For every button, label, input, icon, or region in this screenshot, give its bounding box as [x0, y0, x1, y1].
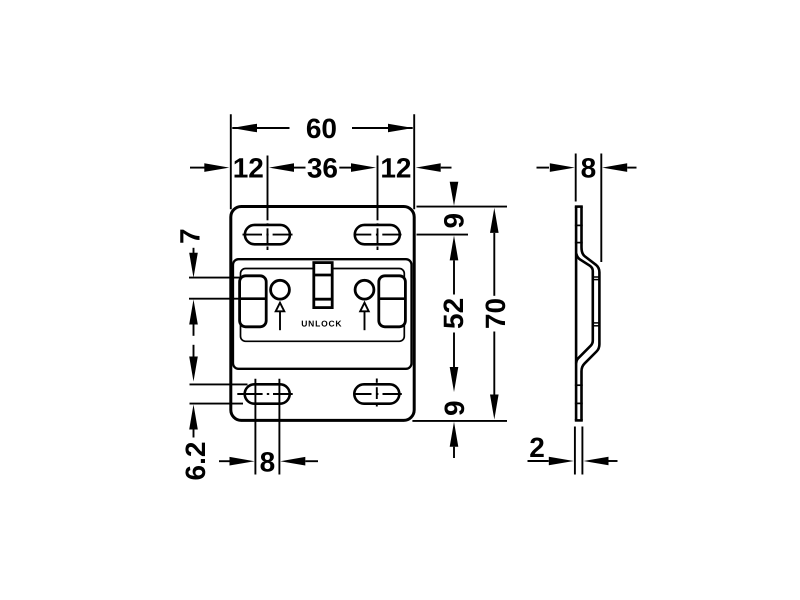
side profile: top end cap	[575, 205, 583, 208]
dimension 8 (side top)	[537, 153, 637, 184]
center slider button	[314, 263, 332, 308]
svg-text:12: 12	[380, 153, 411, 184]
dimension 9 (top right)	[438, 182, 469, 229]
front view: recessed inner rectangle	[241, 269, 405, 342]
unlabeled chain arrows (left)	[189, 345, 198, 382]
left pin circle	[271, 280, 290, 299]
center line: bottom-right slot horizontal	[355, 393, 402, 395]
bottom-right slot	[354, 384, 399, 403]
extension line: plate left edge	[230, 114, 232, 209]
center line: bottom-right slot vertical	[376, 379, 378, 407]
bottom-left slot	[245, 384, 290, 403]
top-right slot	[355, 225, 400, 244]
svg-text:52: 52	[438, 298, 469, 329]
extension lines for bottom 8	[254, 379, 256, 475]
dimension 9 (bottom right)	[439, 400, 470, 458]
svg-text:7: 7	[175, 228, 206, 244]
svg-text:70: 70	[480, 298, 511, 329]
extension line: plate bottom right	[412, 420, 507, 422]
svg-text:60: 60	[306, 113, 337, 144]
center line: top-right slot horizontal	[354, 234, 402, 236]
side profile: inner bump line	[576, 254, 593, 364]
svg-text:2: 2	[529, 432, 545, 463]
side profile: back face line	[575, 207, 578, 421]
extension line A (lock top, left)	[189, 277, 269, 279]
left latch block	[240, 276, 267, 327]
dimension 60	[232, 113, 413, 144]
right latch divider	[379, 297, 406, 300]
svg-text:6.2: 6.2	[180, 442, 211, 481]
dimension 70 (right)	[480, 208, 511, 420]
side profile: bottom end cap	[575, 419, 583, 422]
dimension 36	[269, 153, 376, 184]
extension lines 6.2	[190, 383, 248, 385]
dimension 8 (bottom)	[219, 446, 318, 477]
dimension 2 (side bottom)	[528, 432, 618, 465]
svg-text:8: 8	[581, 153, 597, 184]
left latch divider	[240, 297, 267, 300]
center line: top-left slot horizontal	[243, 234, 293, 236]
svg-text:9: 9	[439, 400, 470, 416]
svg-text:12: 12	[233, 153, 264, 184]
svg-text:9: 9	[438, 213, 469, 229]
center line: bottom-left slot horizontal	[237, 393, 292, 395]
side profile tick marks (bump)	[592, 277, 601, 326]
extension lines for 2	[574, 427, 576, 475]
right unlock arrow	[360, 303, 369, 312]
extension line B (hole center, left)	[189, 298, 275, 300]
extension line: plate right edge	[413, 114, 415, 209]
left unlock arrow	[276, 303, 285, 312]
right latch block	[379, 276, 406, 327]
svg-text:8: 8	[260, 446, 276, 477]
dimension 52 (right)	[438, 235, 469, 392]
right pin circle	[355, 280, 374, 299]
dimension 12 (left)	[190, 153, 264, 184]
dimension 12 (right)	[380, 153, 451, 184]
center line: top-right slot vertical	[377, 156, 379, 251]
extension line: top slot center right	[417, 234, 469, 236]
side profile slot tick marks (back)	[575, 225, 583, 403]
extension line: plate top right	[417, 206, 508, 208]
top-left slot	[245, 225, 290, 244]
front view: plate outline	[231, 207, 414, 421]
extension lines side 8	[575, 154, 577, 202]
svg-text:UNLOCK: UNLOCK	[301, 318, 342, 328]
dimension 6.2 (left bottom)	[180, 405, 211, 481]
center line: top-left slot vertical	[267, 156, 269, 251]
svg-text:36: 36	[307, 153, 338, 184]
side profile: outer face path	[582, 207, 600, 421]
dimension 7 (left)	[175, 228, 206, 335]
front view: raised band outline	[233, 259, 412, 369]
